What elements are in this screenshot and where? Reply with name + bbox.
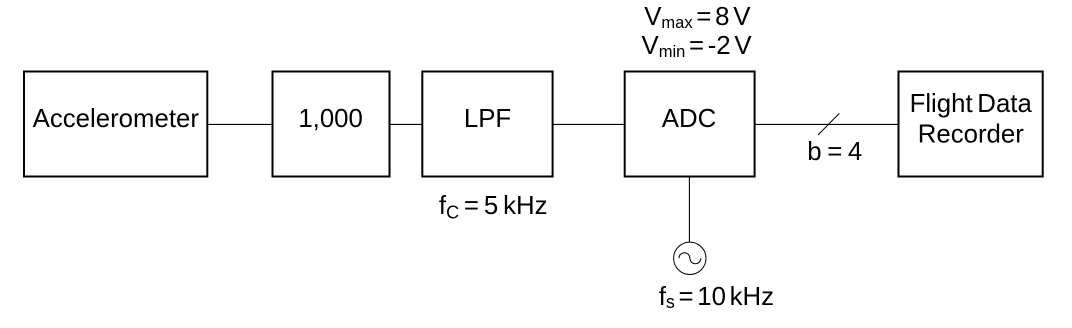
svg-text:LPF: LPF bbox=[464, 105, 511, 133]
svg-text:b = 4: b = 4 bbox=[807, 138, 862, 166]
svg-text:1,000: 1,000 bbox=[298, 105, 363, 133]
svg-text:fs = 10 kHz: fs = 10 kHz bbox=[659, 283, 774, 312]
svg-text:Vmax = 8 V: Vmax = 8 V bbox=[644, 3, 751, 32]
svg-text:Recorder: Recorder bbox=[918, 121, 1025, 149]
svg-text:ADC: ADC bbox=[662, 105, 716, 133]
svg-text:Accelerometer: Accelerometer bbox=[33, 105, 200, 133]
svg-text:Flight Data: Flight Data bbox=[910, 90, 1033, 118]
svg-text:Vmin = -2 V: Vmin = -2 V bbox=[642, 32, 753, 61]
